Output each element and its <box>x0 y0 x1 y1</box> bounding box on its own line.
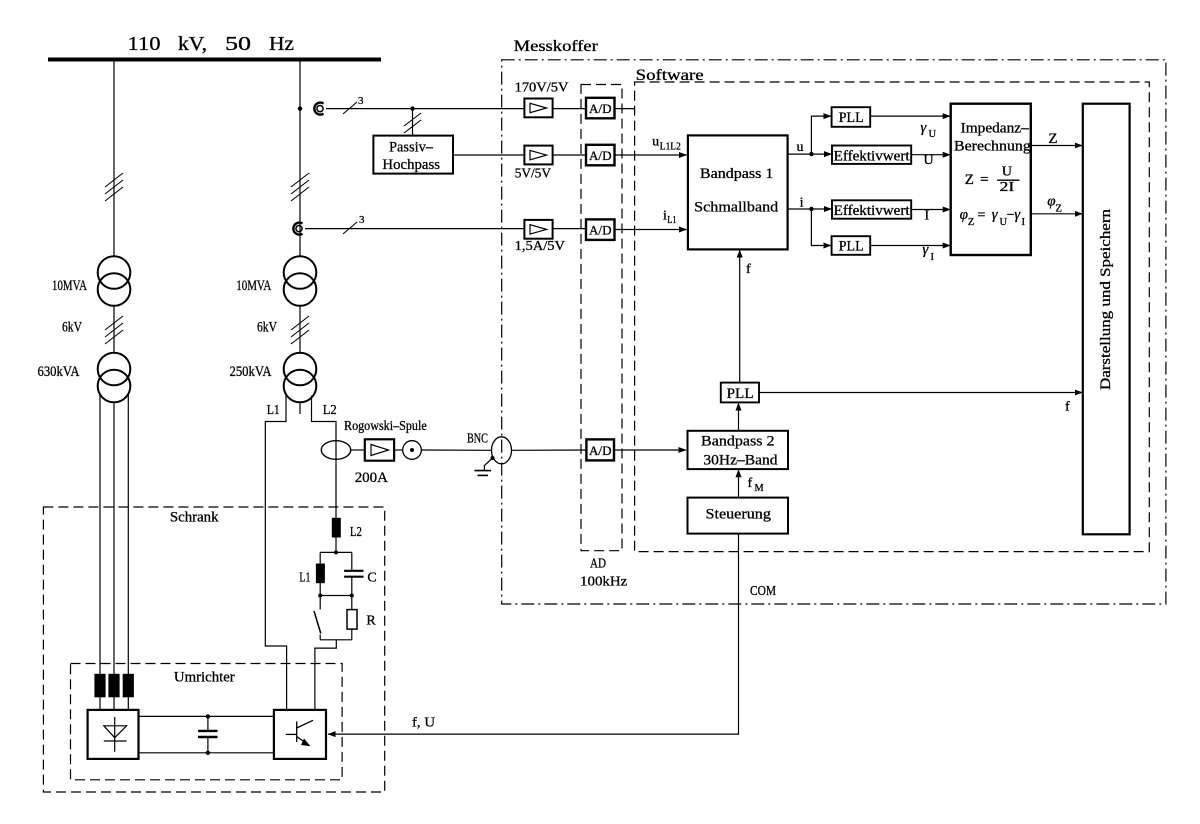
box PLL center <box>721 383 759 403</box>
choke phase a <box>95 674 105 696</box>
svg-text:Bandpass 1: Bandpass 1 <box>700 166 774 182</box>
wire i node to Effektivwert2 <box>811 208 831 210</box>
wire R branch <box>351 596 353 610</box>
label gamma_I <box>922 242 934 263</box>
wire left feeder drop <box>113 61 115 256</box>
wire connector to BNC <box>421 449 491 451</box>
formula Z = U/2I <box>965 165 1015 196</box>
svg-text:A/D: A/D <box>589 101 612 116</box>
break marks left 6kV <box>105 316 123 344</box>
slash 3-phase tap2 <box>343 222 357 234</box>
svg-text:γ: γ <box>920 120 927 136</box>
amplifier 1,5A/5V <box>524 220 552 239</box>
wire R to bottom bar <box>351 629 353 640</box>
choke phase c <box>123 674 133 696</box>
svg-text:170V/5V: 170V/5V <box>515 81 569 96</box>
svg-text:A/D: A/D <box>589 443 612 458</box>
svg-text:Z: Z <box>968 217 974 228</box>
formula phi_Z = gamma_U - gamma_I <box>960 207 1026 228</box>
svg-text:f: f <box>748 476 753 491</box>
svg-text:f: f <box>1065 400 1070 415</box>
wires chokes to rectifier <box>100 697 128 710</box>
choke L2 <box>332 518 340 537</box>
label gamma_U <box>920 120 936 140</box>
node mid bar left <box>318 594 322 598</box>
svg-text:110: 110 <box>128 33 161 55</box>
svg-text:10MVA: 10MVA <box>52 278 87 294</box>
wire between left transformers <box>113 306 115 353</box>
svg-text:L2: L2 <box>323 403 337 418</box>
DC link capacitor <box>198 714 218 755</box>
wire amp3 to A/D3 <box>553 228 586 230</box>
svg-text:u: u <box>797 140 804 155</box>
svg-text:Effektivwert: Effektivwert <box>834 203 911 219</box>
choke L1 <box>317 564 325 583</box>
label u_L1L2 <box>652 135 681 153</box>
box Steuerung <box>688 498 789 534</box>
svg-text:100kHz: 100kHz <box>580 574 627 589</box>
svg-text:γ: γ <box>922 242 929 258</box>
node i <box>809 207 813 211</box>
wire PLL up to Bandpass1 f input <box>739 250 741 383</box>
svg-text:L2: L2 <box>350 525 362 540</box>
svg-text:kV,: kV, <box>178 33 207 55</box>
wire Passiv-Hochpass to amp2 <box>453 154 524 156</box>
svg-text:Umrichter: Umrichter <box>174 670 235 686</box>
slash 3-phase tap1 <box>343 102 357 114</box>
A/D converter 3 <box>586 219 615 240</box>
node u <box>809 152 813 156</box>
svg-text:PLL: PLL <box>839 239 864 255</box>
svg-text:=: = <box>980 172 988 188</box>
svg-text:L1L2: L1L2 <box>660 141 681 152</box>
svg-text:i: i <box>800 196 804 211</box>
box Bandpass 1 <box>688 135 788 249</box>
wire amp2 to A/D2 <box>553 154 586 156</box>
svg-text:M: M <box>754 483 764 494</box>
wire A/D2 to Bandpass1 u input <box>615 154 687 156</box>
svg-text:5V/5V: 5V/5V <box>515 166 551 181</box>
connector ring tap2 <box>293 223 302 235</box>
wire Steuerung down COM to inverter <box>328 534 739 735</box>
svg-text:R: R <box>366 613 376 628</box>
transistor inside inverter <box>286 720 313 746</box>
wire Bandpass1 u output <box>788 153 812 155</box>
svg-text:200A: 200A <box>355 470 388 486</box>
wire network to inverter <box>315 640 336 710</box>
wire L1 to mid bar <box>319 583 321 596</box>
svg-text:Darstellung und Speichern: Darstellung und Speichern <box>1098 208 1114 390</box>
node mid bar right <box>350 594 354 598</box>
ground at BNC <box>475 456 495 475</box>
svg-text:I: I <box>931 252 935 263</box>
A/D converter 2 <box>586 145 615 166</box>
switch blade <box>314 596 321 640</box>
svg-text:I: I <box>1022 217 1026 228</box>
svg-text:Impedanz–: Impedanz– <box>961 121 1030 137</box>
wire between middle transformers <box>299 306 301 353</box>
amplifier 200A <box>365 439 394 460</box>
svg-text:Effektivwert: Effektivwert <box>834 148 911 164</box>
wire tap2 to amp3 <box>305 228 524 230</box>
resistor R <box>347 610 357 630</box>
svg-text:Steuerung: Steuerung <box>706 507 772 523</box>
svg-text:630kVA: 630kVA <box>38 364 80 380</box>
wire Effektivwert2 to Impedanz <box>911 209 950 211</box>
wire DC rail bottom <box>139 752 274 754</box>
busbar title <box>128 33 295 55</box>
transformer T4 250kVA <box>284 353 317 386</box>
transformer T1 10MVA <box>98 256 131 289</box>
wire u node to Effektivwert1 <box>811 153 831 155</box>
svg-text:PLL: PLL <box>727 386 754 402</box>
A/D converter 4 <box>586 439 614 460</box>
diode inside rectifier <box>104 717 127 752</box>
wire Rogowski to amp 200A <box>351 449 365 451</box>
svg-text:Hochpass: Hochpass <box>382 157 440 173</box>
BNC connector ellipse <box>492 437 512 464</box>
wire tap1 to amp1 <box>326 108 524 110</box>
svg-text:i: i <box>663 209 667 224</box>
svg-text:U: U <box>924 153 934 168</box>
svg-text:f, U: f, U <box>412 715 435 730</box>
connector plug circle <box>403 441 422 460</box>
box Effektivwert 2 <box>832 200 911 219</box>
svg-text:Passiv–: Passiv– <box>389 140 433 156</box>
svg-text:L1: L1 <box>299 571 310 586</box>
svg-text:COM: COM <box>750 584 776 599</box>
wire phase a down <box>99 394 101 674</box>
wire PLL2 to Impedanz <box>870 245 950 247</box>
Software dashed border <box>635 82 1150 552</box>
wire A/D4 to Bandpass 2 <box>614 449 686 451</box>
wire Effektivwert1 to Impedanz <box>911 154 950 156</box>
wire bottom bar <box>320 639 352 641</box>
svg-text:Software: Software <box>636 67 704 84</box>
wire phase b down <box>113 402 115 674</box>
amplifier 170V/5V <box>524 99 552 118</box>
Schrank dashed border <box>43 507 384 792</box>
svg-text:U: U <box>1002 165 1012 180</box>
svg-text:10MVA: 10MVA <box>236 278 271 294</box>
box Impedanz-Berechnung <box>951 104 1031 255</box>
node network top <box>334 550 338 554</box>
break marks middle feeder <box>291 173 309 201</box>
wire middle feeder drop <box>299 61 301 256</box>
svg-text:Berechnung: Berechnung <box>954 138 1031 154</box>
wire C branch down <box>351 552 353 569</box>
wire L2 choke to network top <box>335 537 337 553</box>
wire amp1 to A/D1 <box>553 108 586 110</box>
wire network top bar <box>320 551 352 553</box>
svg-text:γ: γ <box>1014 207 1021 223</box>
svg-text:6kV: 6kV <box>62 319 82 335</box>
svg-text:1,5A/5V: 1,5A/5V <box>515 239 565 254</box>
svg-text:A/D: A/D <box>589 148 612 163</box>
svg-text:γ: γ <box>992 207 999 223</box>
box PLL 1 <box>832 107 871 127</box>
AD dashed border <box>581 85 622 551</box>
svg-text:φ: φ <box>960 207 968 223</box>
break marks middle 6kV <box>291 316 309 344</box>
wire PLL1 to Impedanz <box>870 115 950 117</box>
wire L2 branch upper <box>312 396 337 519</box>
wire L1 branch down <box>319 552 321 564</box>
wire A/D3 to Bandpass1 i input <box>615 229 687 231</box>
svg-text:Schmallband: Schmallband <box>694 199 779 215</box>
amplifier 5V/5V <box>524 146 552 165</box>
label f_M <box>748 476 765 494</box>
svg-text:3: 3 <box>358 95 364 107</box>
rectifier box <box>88 710 139 759</box>
svg-text:BNC: BNC <box>467 431 488 446</box>
node above Passiv-Hochpass <box>410 106 414 110</box>
wire node to Passiv-Hochpass <box>412 109 414 136</box>
svg-text:AD: AD <box>590 556 606 571</box>
inverter box <box>274 710 326 759</box>
svg-text:u: u <box>652 135 659 150</box>
transformer T2 630kVA <box>98 353 131 386</box>
busbar 110kV <box>48 58 381 62</box>
label i_L1 <box>663 209 676 227</box>
choke phase b <box>109 674 119 696</box>
wire mid bar <box>320 595 352 597</box>
svg-text:6kV: 6kV <box>257 319 277 335</box>
wire A/D1 to Software border <box>615 108 635 110</box>
label AD 100kHz <box>580 556 627 589</box>
box Bandpass 2 <box>688 431 789 469</box>
wire u node to PLL1 <box>811 116 831 154</box>
Messkoffer dash-dot border <box>502 60 1166 604</box>
break marks Passiv drop <box>404 113 421 133</box>
break marks left feeder <box>105 173 123 201</box>
svg-text:50: 50 <box>225 33 251 55</box>
wire C to mid bar <box>351 578 353 596</box>
Umrichter dashed border <box>71 664 343 780</box>
box Darstellung und Speichern <box>1083 104 1130 535</box>
wire L2 center stub <box>299 402 301 414</box>
svg-text:L1: L1 <box>667 215 676 226</box>
wire Steuerung to Bandpass2 <box>738 470 740 498</box>
svg-text:Z: Z <box>965 172 974 188</box>
svg-text:Hz: Hz <box>269 33 294 55</box>
svg-text:C: C <box>367 571 376 586</box>
wire phi_Z output <box>1032 213 1083 215</box>
svg-text:f: f <box>746 262 751 277</box>
Rogowski coil ellipse <box>321 441 350 460</box>
svg-text:U: U <box>929 129 937 140</box>
label phi_Z out <box>1047 193 1062 214</box>
capacitor C <box>344 571 363 577</box>
wire PLL to Darstellung f <box>759 392 1082 394</box>
svg-text:PLL: PLL <box>839 110 864 126</box>
fraction bar <box>997 179 1019 181</box>
wire Bandpass2 to PLL <box>738 403 740 431</box>
svg-text:Z: Z <box>1048 131 1057 147</box>
wire DC rail top <box>139 715 274 717</box>
svg-text:=: = <box>978 208 986 223</box>
svg-text:A/D: A/D <box>589 223 612 238</box>
wire Z output <box>1032 145 1083 147</box>
box Passiv-Hochpass <box>373 136 453 174</box>
svg-text:Z: Z <box>1056 204 1062 215</box>
svg-text:2I: 2I <box>1000 180 1015 195</box>
box Effektivwert 1 <box>832 146 911 165</box>
wire amp 200A to connector <box>394 449 403 451</box>
svg-text:I: I <box>925 209 930 224</box>
wire Bandpass1 i output <box>788 208 812 210</box>
svg-text:φ: φ <box>1047 193 1055 209</box>
A/D converter 1 <box>586 98 615 119</box>
svg-text:250kVA: 250kVA <box>230 364 272 380</box>
transformer T3 10MVA <box>284 256 317 289</box>
node tap1 <box>298 106 302 110</box>
wire phase c down <box>127 394 129 674</box>
wire i node to PLL2 <box>811 209 831 246</box>
svg-text:Bandpass 2: Bandpass 2 <box>701 433 775 449</box>
svg-text:Schrank: Schrank <box>170 510 219 526</box>
box PLL 2 <box>832 236 871 255</box>
svg-text:Messkoffer: Messkoffer <box>514 38 599 55</box>
svg-text:3: 3 <box>359 214 365 226</box>
svg-text:30Hz–Band: 30Hz–Band <box>703 453 778 469</box>
svg-text:L1: L1 <box>267 403 280 418</box>
connector ring tap1 <box>314 103 323 115</box>
wire BNC to A/D4 <box>512 449 587 451</box>
wire L1 branch <box>265 396 286 710</box>
svg-text:Rogowski–Spule: Rogowski–Spule <box>344 419 427 434</box>
